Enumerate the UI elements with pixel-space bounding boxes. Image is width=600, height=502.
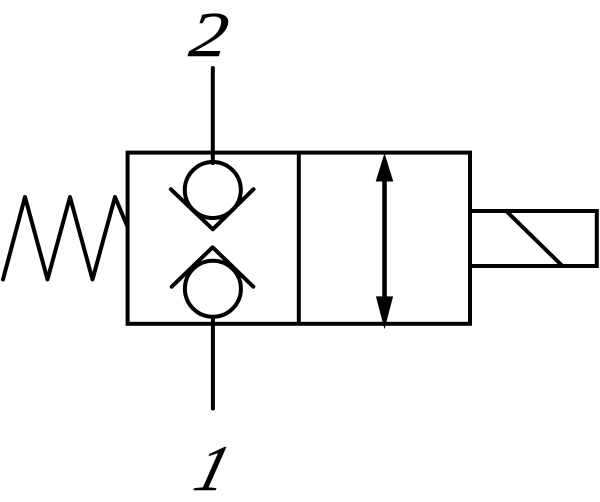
check valve ball CV2: [185, 261, 241, 317]
actuation double arrow shaft: [382, 178, 387, 299]
check valve seat CV2: [172, 247, 254, 286]
wire port 1 line: [211, 318, 215, 409]
valve body divider line: [297, 153, 301, 324]
actuation arrowhead up: [376, 153, 394, 182]
return spring: [3, 197, 127, 280]
solenoid box: [470, 211, 597, 266]
valve body outline: [128, 153, 470, 324]
solenoid diagonal: [506, 211, 562, 266]
check valve seat CV1: [171, 189, 254, 229]
actuation arrowhead down: [376, 296, 393, 329]
svg-text:2: 2: [186, 0, 232, 70]
check valve ball CV1: [185, 162, 241, 218]
wire port 2 line: [211, 68, 215, 163]
svg-text:1: 1: [188, 432, 239, 502]
